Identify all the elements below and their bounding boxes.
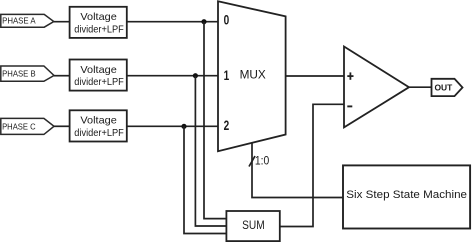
block U7 SUM	[226, 211, 279, 241]
svg-text:2: 2	[224, 118, 230, 133]
svg-text:Voltage: Voltage	[80, 11, 117, 23]
wire node A drop to SUM	[204, 22, 226, 219]
svg-text:divider+LPF: divider+LPF	[74, 25, 124, 36]
block U6 Six Step State Machine	[343, 165, 470, 228]
mux U4 MUX	[218, 1, 286, 151]
input port PHASE B	[1, 66, 54, 81]
wire MUX output to comparator plus	[286, 75, 344, 77]
wire phase A to divider	[54, 21, 70, 23]
svg-text:divider+LPF: divider+LPF	[74, 128, 124, 139]
svg-text:Voltage: Voltage	[80, 115, 117, 127]
wire divider A to MUX input 0	[127, 21, 218, 23]
svg-text:SUM: SUM	[242, 218, 265, 232]
svg-text:OUT: OUT	[435, 83, 454, 93]
svg-text:divider+LPF: divider+LPF	[74, 77, 124, 88]
svg-text:PHASE A: PHASE A	[2, 15, 36, 25]
block U3 Voltage divider+LPF (phase C)	[70, 110, 127, 141]
wire SUM output to comparator minus	[280, 104, 344, 226]
svg-text:Six Step State Machine: Six Step State Machine	[346, 189, 467, 201]
svg-text:MUX: MUX	[240, 67, 266, 81]
wire divider C to MUX input 2	[127, 125, 218, 127]
input port PHASE A	[1, 14, 54, 27]
op-amp U5 comparator	[344, 47, 409, 128]
output port OUT	[432, 79, 463, 96]
svg-text:Voltage: Voltage	[80, 64, 117, 76]
svg-text:0: 0	[224, 13, 230, 28]
block U2 Voltage divider+LPF (phase B)	[70, 60, 127, 91]
svg-text:PHASE C: PHASE C	[2, 122, 36, 132]
wire comparator output	[409, 86, 432, 88]
block U1 Voltage divider+LPF (phase A)	[70, 7, 127, 38]
wire node C drop to SUM	[184, 126, 226, 233]
node B junction dot	[193, 73, 198, 78]
wire phase C to divider	[54, 125, 70, 127]
wire MUX select from state machine	[252, 143, 343, 198]
wire divider B to MUX input 1	[127, 75, 218, 77]
svg-text:1:0: 1:0	[255, 155, 269, 167]
node A junction dot	[201, 19, 206, 24]
node C junction dot	[181, 124, 186, 129]
svg-text:1: 1	[224, 68, 230, 83]
svg-text:PHASE B: PHASE B	[2, 69, 36, 79]
bus width slash	[249, 156, 255, 167]
input port PHASE C	[1, 118, 54, 134]
wire phase B to divider	[54, 75, 70, 77]
wire node B drop to SUM	[195, 76, 226, 226]
